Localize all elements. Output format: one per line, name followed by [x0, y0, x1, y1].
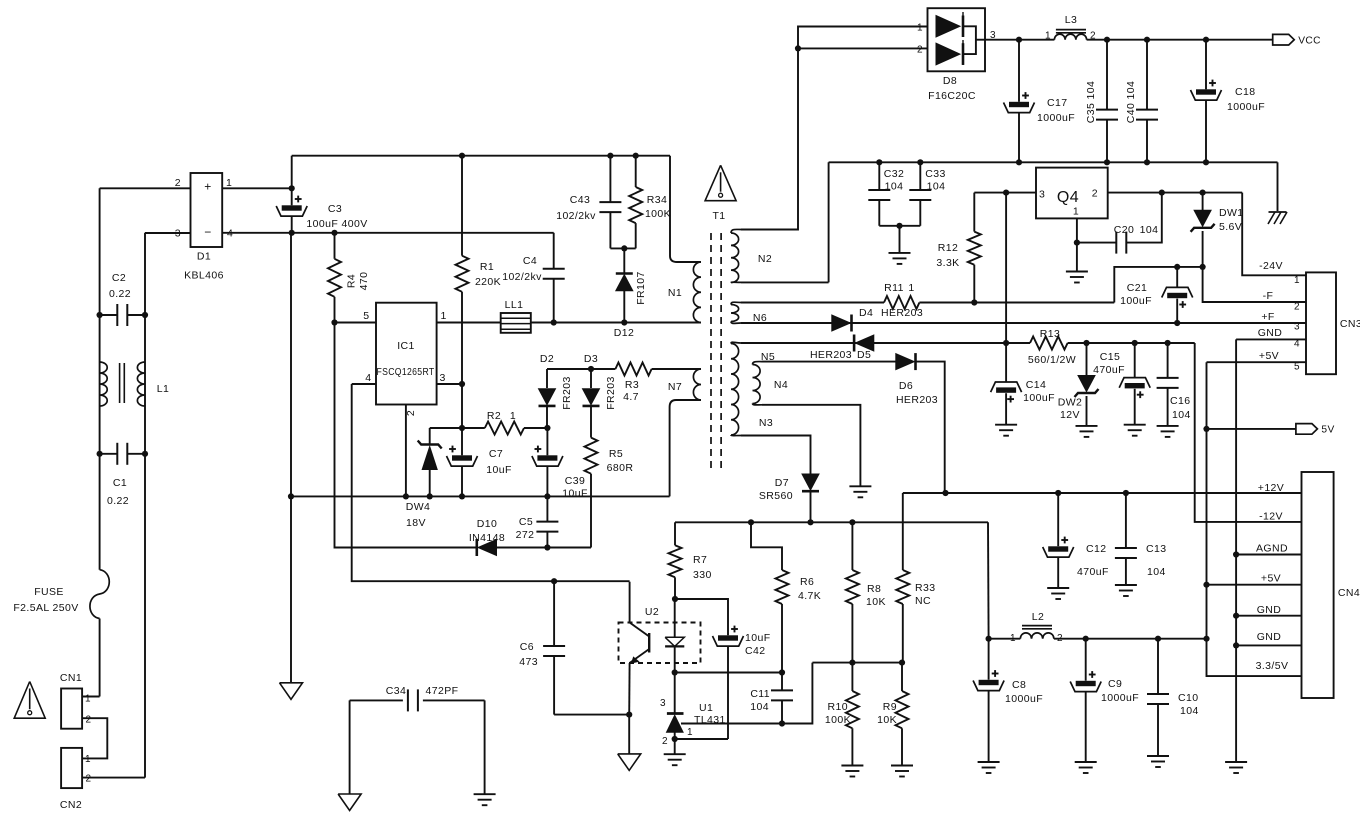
wire	[145, 232, 191, 234]
capacitor C43	[556, 156, 621, 249]
svg-text:104: 104	[1140, 224, 1159, 236]
primary gnd rail	[288, 493, 670, 499]
wire	[675, 738, 728, 740]
svg-text:NC: NC	[915, 595, 931, 607]
capacitor C9	[1070, 639, 1139, 762]
svg-text:4.7K: 4.7K	[798, 590, 821, 602]
svg-text:U2: U2	[645, 606, 659, 618]
svg-text:330: 330	[693, 569, 712, 581]
svg-text:C15: C15	[1100, 351, 1120, 363]
svg-text:10uF: 10uF	[745, 632, 771, 644]
svg-text:D7: D7	[775, 477, 789, 489]
svg-text:R1: R1	[480, 261, 494, 273]
zener DW4	[406, 428, 442, 529]
svg-text:102/2kv: 102/2kv	[556, 210, 596, 222]
svg-text:F16C20C: F16C20C	[928, 90, 976, 102]
wire	[1203, 267, 1306, 302]
zener DW2	[1058, 343, 1099, 426]
svg-text:104: 104	[885, 181, 904, 193]
svg-text:100uF: 100uF	[1120, 295, 1152, 307]
svg-text:3.3/5V: 3.3/5V	[1256, 660, 1289, 672]
svg-text:KBL406: KBL406	[184, 270, 224, 282]
wire	[99, 188, 101, 569]
-F jog wire	[1114, 264, 1205, 303]
node	[459, 425, 465, 431]
fuse	[13, 570, 109, 697]
svg-text:R13: R13	[1040, 328, 1060, 340]
capacitor C14	[991, 343, 1055, 425]
svg-text:R7: R7	[693, 554, 707, 566]
winding N4	[753, 362, 789, 405]
svg-text:R6: R6	[800, 576, 814, 588]
svg-text:12V: 12V	[1060, 409, 1080, 421]
wire	[437, 322, 501, 324]
svg-text:472PF: 472PF	[426, 685, 459, 697]
CN3 labels	[1258, 260, 1300, 373]
wire	[741, 27, 928, 230]
svg-text:+: +	[204, 180, 211, 194]
capacitor C16	[1157, 343, 1191, 426]
capacitor C20	[1077, 193, 1162, 254]
svg-text:C42: C42	[745, 645, 765, 657]
svg-text:10K: 10K	[866, 596, 886, 608]
resistor R6	[751, 522, 821, 672]
capacitor C3	[276, 196, 367, 233]
wire	[828, 162, 830, 282]
svg-text:D6: D6	[899, 380, 913, 392]
wire	[987, 522, 990, 638]
svg-text:C16: C16	[1170, 395, 1190, 407]
svg-text:CN1: CN1	[60, 672, 82, 684]
wire	[222, 185, 295, 191]
wire	[82, 777, 145, 779]
svg-text:1: 1	[1010, 633, 1016, 644]
diode D6 HER203	[896, 353, 938, 406]
svg-text:C7: C7	[489, 448, 503, 460]
wire	[335, 323, 478, 548]
svg-text:FR203: FR203	[605, 376, 617, 410]
svg-text:1: 1	[226, 177, 232, 189]
VCC flag	[1273, 34, 1321, 46]
wire	[291, 156, 293, 206]
capacitor C7	[447, 428, 512, 496]
node	[97, 451, 103, 457]
svg-text:2: 2	[175, 177, 181, 189]
ground	[1075, 762, 1097, 773]
node	[672, 669, 678, 675]
svg-text:IN4148: IN4148	[469, 532, 505, 544]
node	[544, 425, 550, 431]
node	[986, 636, 992, 642]
svg-text:1000uF: 1000uF	[1005, 693, 1043, 705]
svg-text:3: 3	[1039, 189, 1045, 201]
ground	[849, 486, 871, 497]
svg-text:C33: C33	[925, 168, 945, 180]
wire	[916, 362, 945, 493]
zener DW1	[1191, 193, 1244, 267]
svg-text:C43: C43	[570, 194, 590, 206]
ground	[1157, 426, 1179, 437]
svg-text:+5V: +5V	[1261, 573, 1281, 585]
svg-text:Q4: Q4	[1057, 189, 1079, 206]
wire	[610, 245, 635, 251]
winding N7	[668, 369, 701, 496]
capacitor C15	[1093, 343, 1150, 425]
svg-text:C20: C20	[1114, 224, 1134, 236]
svg-text:560/1/2W: 560/1/2W	[1028, 354, 1076, 366]
svg-text:470uF: 470uF	[1077, 566, 1109, 578]
svg-text:C12: C12	[1086, 543, 1106, 555]
svg-text:GND: GND	[1257, 631, 1282, 643]
svg-text:AGND: AGND	[1256, 543, 1288, 555]
resistor R9	[877, 663, 908, 766]
wire	[335, 322, 377, 324]
svg-text:C10: C10	[1178, 692, 1198, 704]
svg-text:272: 272	[516, 529, 535, 541]
CN4 labels	[1256, 482, 1289, 672]
ground	[841, 766, 863, 777]
svg-text:-F: -F	[1263, 290, 1274, 302]
capacitor C6	[519, 581, 565, 714]
svg-text:D10: D10	[477, 518, 497, 530]
svg-text:−: −	[204, 225, 211, 239]
R11 -F wire	[741, 299, 1114, 305]
wire	[290, 233, 292, 683]
wire	[741, 436, 811, 474]
svg-text:N7: N7	[668, 381, 682, 393]
capacitor C1	[100, 443, 145, 507]
svg-text:DW2: DW2	[1058, 397, 1083, 409]
svg-text:470: 470	[358, 272, 370, 291]
svg-text:1: 1	[1073, 206, 1079, 218]
capacitor C2	[100, 272, 145, 326]
svg-text:C32: C32	[884, 168, 904, 180]
capacitor C4	[502, 233, 564, 323]
node	[621, 319, 627, 325]
svg-text:C34: C34	[386, 685, 406, 697]
D7 rail	[675, 519, 988, 525]
+5V bus	[1203, 362, 1301, 676]
svg-text:R3: R3	[625, 379, 639, 391]
svg-text:C5: C5	[519, 516, 533, 528]
wire	[762, 361, 896, 363]
svg-text:C9: C9	[1108, 678, 1122, 690]
svg-text:HER203: HER203	[881, 307, 923, 319]
node	[672, 596, 678, 602]
capacitor C17	[1004, 40, 1076, 163]
svg-text:10uF: 10uF	[486, 464, 512, 476]
svg-text:2: 2	[1092, 188, 1098, 200]
capacitor C11	[750, 673, 793, 724]
svg-text:2: 2	[917, 45, 923, 56]
-12V wire	[1195, 343, 1302, 522]
resistor R34	[629, 156, 671, 249]
wire	[547, 366, 594, 372]
warning symbol	[14, 682, 45, 719]
svg-text:C13: C13	[1146, 543, 1166, 555]
wire	[1242, 193, 1306, 276]
svg-text:2: 2	[662, 736, 668, 747]
svg-text:IC1: IC1	[397, 340, 415, 352]
U1 ref wire	[681, 663, 812, 727]
node	[459, 381, 465, 387]
svg-text:1: 1	[1294, 275, 1300, 286]
svg-text:LL1: LL1	[505, 299, 524, 311]
svg-text:104: 104	[750, 701, 769, 713]
ground	[1076, 426, 1098, 437]
svg-text:HER203: HER203	[896, 394, 938, 406]
warning symbol	[705, 165, 736, 200]
svg-text:0.22: 0.22	[109, 288, 131, 300]
ground	[1124, 425, 1146, 436]
svg-text:R11: R11	[884, 282, 904, 294]
node	[551, 578, 557, 584]
wire	[675, 669, 785, 675]
wire	[437, 383, 462, 385]
svg-text:D5: D5	[857, 349, 871, 361]
wire	[1236, 338, 1306, 340]
svg-text:104: 104	[1147, 566, 1166, 578]
wire	[100, 187, 191, 189]
resistor R1	[456, 156, 502, 428]
svg-text:5: 5	[363, 310, 369, 322]
wire	[675, 599, 728, 635]
svg-text:473: 473	[519, 656, 538, 668]
winding N6	[731, 302, 767, 324]
svg-text:5V: 5V	[1321, 425, 1334, 436]
svg-text:C18: C18	[1235, 86, 1255, 98]
ground	[1225, 762, 1247, 773]
ground	[978, 762, 1000, 773]
svg-text:220K: 220K	[475, 276, 501, 288]
svg-text:D1: D1	[197, 251, 211, 263]
svg-text:R2: R2	[487, 410, 501, 422]
ref rail	[812, 660, 905, 666]
inductor L2	[1010, 611, 1063, 644]
svg-text:1: 1	[85, 754, 91, 765]
resistor R4	[328, 233, 370, 323]
connector CN3	[1306, 272, 1360, 374]
svg-text:-12V: -12V	[1259, 511, 1283, 523]
svg-text:10uF: 10uF	[562, 488, 588, 500]
wire	[349, 700, 351, 794]
svg-text:R5: R5	[609, 448, 623, 460]
svg-text:1000uF: 1000uF	[1037, 112, 1075, 124]
svg-text:100uF: 100uF	[1023, 392, 1055, 404]
wire	[222, 230, 554, 236]
svg-text:CN2: CN2	[60, 799, 82, 811]
ground	[995, 425, 1017, 436]
ground	[280, 683, 303, 700]
capacitor C12	[1043, 493, 1109, 588]
optocoupler U2	[619, 582, 701, 715]
svg-text:C35 104: C35 104	[1085, 81, 1097, 124]
svg-text:4.7: 4.7	[623, 391, 639, 403]
connector CN1	[60, 672, 92, 729]
capacitor C18	[1191, 40, 1266, 163]
svg-text:1: 1	[441, 310, 447, 322]
svg-text:102/2kv: 102/2kv	[502, 271, 542, 283]
wire	[762, 405, 860, 487]
svg-text:FR107: FR107	[635, 271, 647, 305]
wire	[1236, 644, 1301, 646]
svg-text:T1: T1	[712, 210, 725, 222]
ground	[618, 754, 641, 771]
dual diode D8	[917, 8, 996, 102]
svg-text:VCC: VCC	[1298, 36, 1321, 47]
svg-text:680R: 680R	[607, 462, 634, 474]
vcc return rail	[829, 159, 1278, 165]
capacitor C8	[973, 639, 1043, 762]
ground	[664, 754, 686, 765]
svg-text:D4: D4	[859, 307, 873, 319]
wire	[484, 700, 486, 794]
Q4 pin1	[1074, 218, 1080, 271]
wire	[798, 47, 928, 49]
svg-text:C14: C14	[1026, 379, 1046, 391]
svg-text:C6: C6	[520, 641, 534, 653]
svg-text:L3: L3	[1065, 14, 1077, 26]
wire	[1005, 193, 1007, 343]
svg-text:1: 1	[1045, 31, 1051, 42]
resistor R13	[1028, 328, 1076, 366]
svg-text:GND: GND	[1257, 604, 1282, 616]
svg-text:C17: C17	[1047, 97, 1067, 109]
svg-text:R8: R8	[867, 583, 881, 595]
wire	[554, 712, 632, 718]
wire	[352, 384, 630, 581]
wire	[292, 153, 670, 159]
resistor R2	[430, 410, 548, 435]
svg-text:D3: D3	[584, 353, 598, 365]
svg-text:HER203: HER203	[810, 349, 852, 361]
node	[97, 312, 103, 318]
diode D5 HER203	[810, 335, 874, 362]
svg-text:C8: C8	[1012, 679, 1026, 691]
wire	[741, 281, 829, 283]
svg-text:2: 2	[1090, 31, 1096, 42]
5V flag	[1207, 424, 1335, 436]
VCC rail	[985, 37, 1273, 43]
svg-text:C11: C11	[750, 688, 770, 700]
L2 rail	[1054, 636, 1207, 642]
inductor L3	[1045, 14, 1096, 42]
svg-text:N1: N1	[668, 287, 682, 299]
ground	[891, 766, 913, 777]
svg-text:N4: N4	[774, 379, 788, 391]
svg-text:CN3: CN3	[1340, 318, 1360, 330]
svg-text:1000uF: 1000uF	[1227, 101, 1265, 113]
svg-text:U1: U1	[699, 702, 713, 714]
wire	[1207, 361, 1307, 363]
wire	[531, 319, 701, 325]
D5 rail	[741, 340, 1195, 346]
svg-text:2: 2	[86, 715, 92, 726]
capacitor C5	[516, 496, 559, 547]
svg-text:FUSE: FUSE	[34, 586, 64, 598]
svg-text:1: 1	[917, 23, 923, 34]
+12V rail	[903, 490, 1302, 496]
svg-text:100K: 100K	[645, 208, 671, 220]
svg-text:1: 1	[687, 727, 693, 738]
svg-text:+12V: +12V	[1258, 482, 1284, 494]
svg-text:2: 2	[1294, 302, 1300, 313]
svg-text:3: 3	[1294, 322, 1300, 333]
diode D3 FR203	[583, 353, 618, 438]
diode D10 IN4148	[469, 518, 591, 556]
capacitor C35	[1085, 40, 1118, 163]
+F rail	[741, 320, 1306, 326]
capacitor C13	[1115, 493, 1167, 585]
svg-text:R4: R4	[346, 274, 358, 288]
transformer core T1	[711, 233, 721, 468]
resistor R3	[591, 363, 701, 404]
capacitor C40	[1125, 40, 1158, 163]
winding N2	[731, 229, 772, 282]
+12V corner	[902, 493, 904, 570]
svg-text:4: 4	[365, 372, 371, 384]
capacitor C34	[350, 685, 485, 711]
capacitor C39	[532, 428, 588, 500]
wire	[1236, 554, 1301, 556]
svg-text:R33: R33	[915, 582, 935, 594]
chassis ground	[1268, 212, 1287, 224]
-24V rail	[1108, 190, 1243, 196]
capacitor C10	[1147, 639, 1199, 756]
wire	[628, 715, 630, 754]
svg-text:R10: R10	[828, 701, 848, 713]
svg-text:100K: 100K	[825, 714, 851, 726]
wire	[974, 190, 1036, 196]
svg-text:D12: D12	[614, 327, 634, 339]
svg-text:470uF: 470uF	[1093, 364, 1125, 376]
capacitor C32	[868, 162, 904, 226]
svg-text:0.22: 0.22	[107, 495, 129, 507]
ground	[1047, 588, 1069, 599]
svg-text:R12: R12	[938, 242, 958, 254]
svg-text:+F: +F	[1261, 311, 1274, 323]
ground	[474, 794, 496, 805]
svg-text:FSCQ1265RT: FSCQ1265RT	[377, 366, 435, 378]
svg-text:104: 104	[927, 181, 946, 193]
wire	[405, 405, 407, 497]
svg-text:F2.5AL 250V: F2.5AL 250V	[13, 602, 78, 614]
IC IC1	[363, 303, 447, 416]
label T1	[712, 210, 725, 222]
svg-text:1000uF: 1000uF	[1101, 692, 1139, 704]
ground	[338, 794, 361, 811]
svg-text:R9: R9	[883, 701, 897, 713]
bridge rectifier D1	[175, 173, 234, 282]
svg-text:+5V: +5V	[1259, 350, 1279, 362]
diode D7 SR560	[759, 474, 819, 522]
diode D4 HER203	[832, 307, 923, 332]
wire	[142, 233, 148, 778]
svg-text:DW1: DW1	[1219, 207, 1244, 219]
wire	[879, 223, 920, 253]
svg-text:5: 5	[1294, 362, 1300, 373]
svg-text:SR560: SR560	[759, 490, 793, 502]
svg-text:L2: L2	[1032, 611, 1044, 623]
svg-text:L1: L1	[157, 383, 169, 395]
svg-text:-24V: -24V	[1259, 260, 1283, 272]
shunt ref U1 TL431	[660, 698, 726, 754]
svg-text:CN4: CN4	[1338, 587, 1360, 599]
diode D12 FR107	[614, 248, 647, 339]
ground	[1147, 756, 1169, 767]
svg-text:C3: C3	[328, 203, 342, 215]
svg-text:1: 1	[908, 282, 914, 294]
